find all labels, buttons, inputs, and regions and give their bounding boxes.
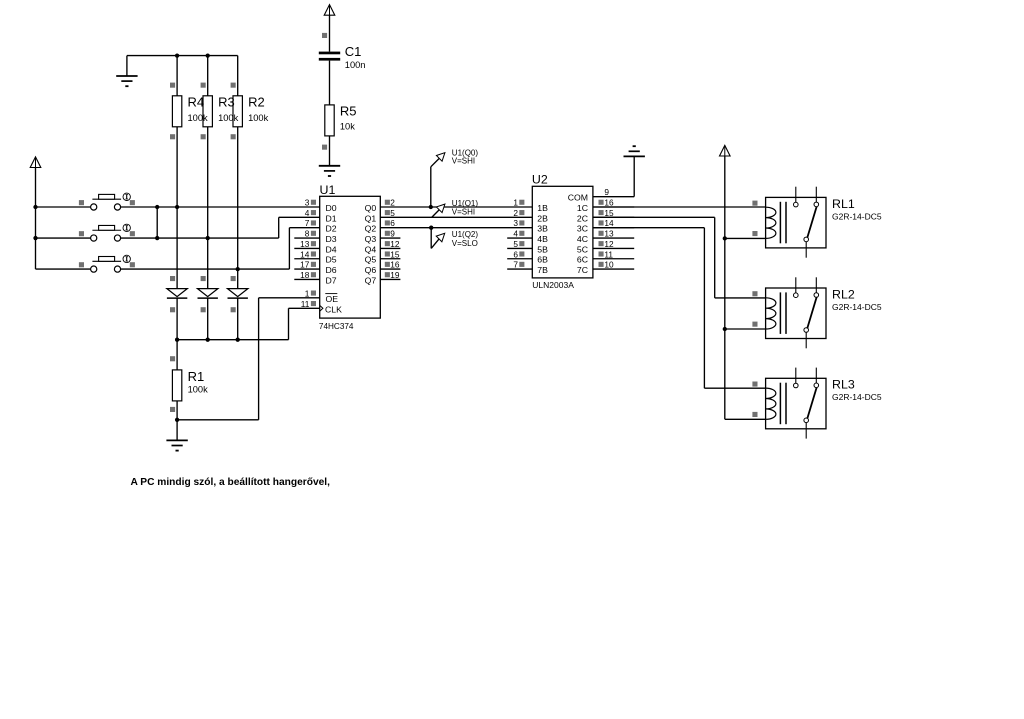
svg-text:Q7: Q7 xyxy=(365,275,377,285)
svg-text:2C: 2C xyxy=(577,213,588,223)
svg-text:2: 2 xyxy=(390,198,395,208)
svg-text:Q3: Q3 xyxy=(365,234,377,244)
svg-text:R4: R4 xyxy=(188,95,205,110)
svg-text:2: 2 xyxy=(513,208,518,218)
svg-text:R1: R1 xyxy=(188,369,205,384)
svg-text:1: 1 xyxy=(305,288,310,298)
svg-text:V=SHI: V=SHI xyxy=(452,207,475,216)
svg-text:100k: 100k xyxy=(188,113,209,123)
svg-text:6: 6 xyxy=(513,249,518,259)
svg-text:Q1: Q1 xyxy=(365,213,377,223)
svg-text:5: 5 xyxy=(390,208,395,218)
svg-text:10k: 10k xyxy=(340,122,355,132)
svg-text:D7: D7 xyxy=(326,275,337,285)
svg-text:10: 10 xyxy=(604,260,614,270)
svg-text:18: 18 xyxy=(300,270,310,280)
svg-text:D4: D4 xyxy=(326,244,337,254)
svg-text:4: 4 xyxy=(305,208,310,218)
svg-text:4C: 4C xyxy=(577,234,588,244)
svg-text:RL2: RL2 xyxy=(832,287,855,301)
svg-text:14: 14 xyxy=(300,249,310,259)
svg-text:G2R-14-DC5: G2R-14-DC5 xyxy=(832,302,882,312)
svg-text:9: 9 xyxy=(390,229,395,239)
svg-text:U2: U2 xyxy=(532,173,548,187)
svg-text:R5: R5 xyxy=(340,104,357,119)
svg-text:D3: D3 xyxy=(326,234,337,244)
svg-text:U1: U1 xyxy=(320,183,336,197)
svg-text:D0: D0 xyxy=(326,203,337,213)
svg-text:7: 7 xyxy=(305,218,310,228)
svg-text:3: 3 xyxy=(513,218,518,228)
svg-text:3C: 3C xyxy=(577,224,588,234)
svg-text:11: 11 xyxy=(301,299,310,309)
svg-text:A PC mindig szól, a beállított: A PC mindig szól, a beállított hangerőve… xyxy=(131,477,331,488)
svg-text:R2: R2 xyxy=(248,95,265,110)
svg-text:12: 12 xyxy=(604,239,614,249)
svg-text:COM: COM xyxy=(568,193,588,203)
svg-text:OE: OE xyxy=(326,294,339,304)
svg-text:G2R-14-DC5: G2R-14-DC5 xyxy=(832,211,882,221)
svg-text:1B: 1B xyxy=(537,203,548,213)
svg-text:19: 19 xyxy=(390,270,400,280)
svg-text:4: 4 xyxy=(513,229,518,239)
svg-text:7: 7 xyxy=(513,260,518,270)
svg-text:D6: D6 xyxy=(326,265,337,275)
svg-text:D1: D1 xyxy=(326,213,337,223)
svg-text:74HC374: 74HC374 xyxy=(319,322,354,331)
svg-text:100n: 100n xyxy=(345,60,366,70)
svg-text:Q5: Q5 xyxy=(365,255,377,265)
svg-text:13: 13 xyxy=(300,239,310,249)
svg-text:6B: 6B xyxy=(537,255,548,265)
svg-text:5B: 5B xyxy=(537,244,548,254)
svg-text:Q4: Q4 xyxy=(365,244,377,254)
svg-text:ULN2003A: ULN2003A xyxy=(532,280,574,290)
svg-text:G2R-14-DC5: G2R-14-DC5 xyxy=(832,392,882,402)
svg-text:Q0: Q0 xyxy=(365,203,377,213)
svg-text:12: 12 xyxy=(390,239,400,249)
svg-text:U1(Q2): U1(Q2) xyxy=(452,230,479,239)
svg-text:1C: 1C xyxy=(577,203,588,213)
svg-text:C1: C1 xyxy=(345,44,362,59)
svg-text:100k: 100k xyxy=(248,113,269,123)
svg-text:100k: 100k xyxy=(218,113,239,123)
svg-text:R3: R3 xyxy=(218,95,235,110)
svg-text:7B: 7B xyxy=(537,265,548,275)
svg-text:11: 11 xyxy=(604,249,613,259)
svg-text:16: 16 xyxy=(390,260,400,270)
svg-text:D2: D2 xyxy=(326,224,337,234)
svg-text:9: 9 xyxy=(604,187,609,197)
svg-text:6: 6 xyxy=(390,218,395,228)
svg-text:V=SHI: V=SHI xyxy=(452,157,475,166)
svg-text:Q2: Q2 xyxy=(365,224,377,234)
svg-text:8: 8 xyxy=(305,229,310,239)
svg-text:3: 3 xyxy=(305,198,310,208)
svg-text:1: 1 xyxy=(513,198,518,208)
svg-text:15: 15 xyxy=(390,249,400,259)
svg-text:17: 17 xyxy=(300,260,310,270)
svg-text:6C: 6C xyxy=(577,255,588,265)
svg-text:15: 15 xyxy=(604,208,614,218)
svg-text:7C: 7C xyxy=(577,265,588,275)
svg-text:D5: D5 xyxy=(326,255,337,265)
svg-text:RL3: RL3 xyxy=(832,378,855,392)
svg-text:5C: 5C xyxy=(577,244,588,254)
svg-text:3B: 3B xyxy=(537,224,548,234)
svg-text:Q6: Q6 xyxy=(365,265,377,275)
svg-text:13: 13 xyxy=(604,229,614,239)
svg-text:16: 16 xyxy=(604,198,614,208)
svg-text:CLK: CLK xyxy=(325,305,342,315)
svg-text:RL1: RL1 xyxy=(832,197,855,211)
svg-text:100k: 100k xyxy=(188,384,209,394)
svg-text:5: 5 xyxy=(513,239,518,249)
svg-text:2B: 2B xyxy=(537,213,548,223)
svg-text:4B: 4B xyxy=(537,234,548,244)
svg-text:14: 14 xyxy=(604,218,614,228)
svg-text:V=SLO: V=SLO xyxy=(452,239,478,248)
